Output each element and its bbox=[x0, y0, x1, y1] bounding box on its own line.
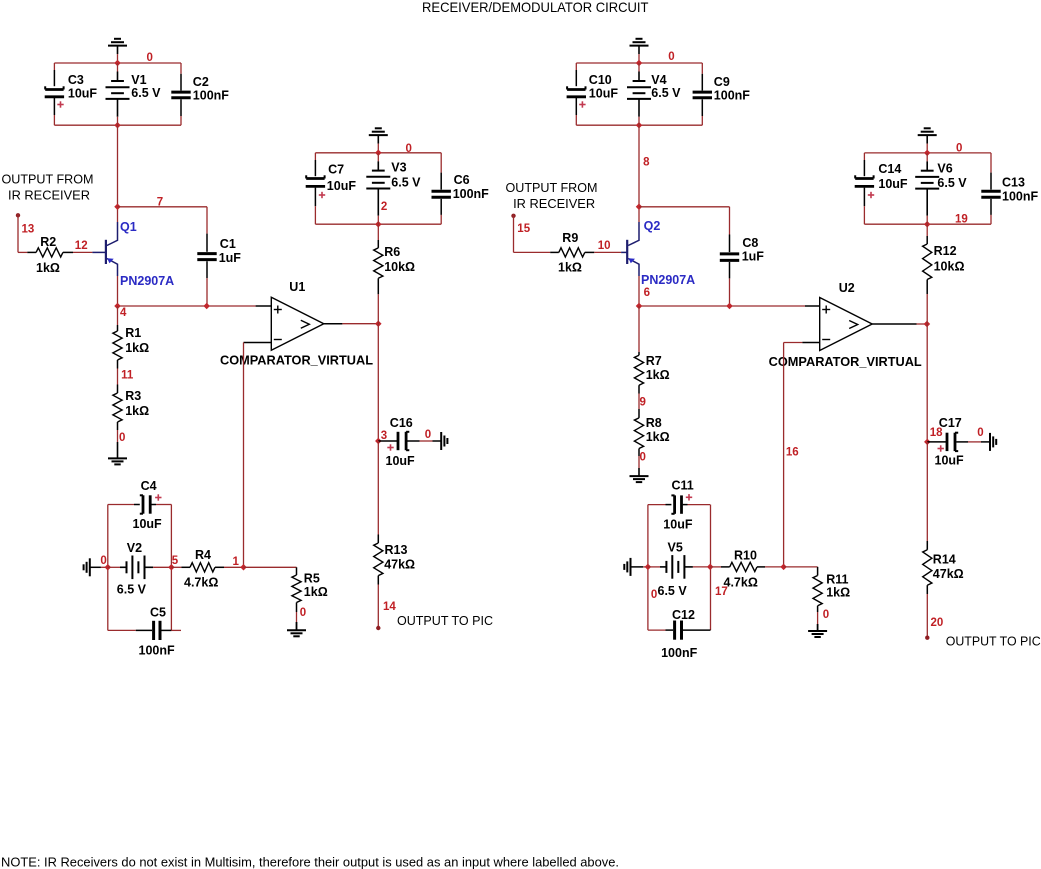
wire node 11 bbox=[117, 369, 119, 385]
junction top of V4 bbox=[636, 60, 643, 67]
battery V4 bbox=[638, 63, 640, 72]
svg-text:0: 0 bbox=[300, 607, 306, 619]
svg-text:12: 12 bbox=[75, 240, 88, 252]
svg-text:13: 13 bbox=[22, 223, 35, 235]
svg-text:6: 6 bbox=[644, 287, 650, 299]
svg-text:Q2: Q2 bbox=[644, 219, 661, 233]
resistor R1 bbox=[117, 306, 119, 325]
wire V5 box left vertical bbox=[647, 505, 649, 630]
wire V3 box bottom bbox=[315, 223, 441, 225]
svg-text:R13: R13 bbox=[385, 543, 408, 557]
svg-text:V1: V1 bbox=[131, 73, 146, 87]
ground left of V5 bbox=[630, 558, 632, 576]
wire U1 minus down to node 1 bbox=[243, 343, 245, 568]
svg-text:C1: C1 bbox=[220, 237, 236, 251]
svg-text:100nF: 100nF bbox=[193, 89, 229, 103]
svg-text:C17: C17 bbox=[939, 416, 962, 430]
svg-text:2: 2 bbox=[381, 201, 387, 213]
output terminal right bbox=[925, 636, 929, 640]
junction top of V1 bbox=[114, 60, 121, 67]
svg-text:RECEIVER/DEMODULATOR CIRCUIT: RECEIVER/DEMODULATOR CIRCUIT bbox=[422, 0, 649, 15]
ground (top of V6 supply) bbox=[924, 127, 931, 129]
wire node 1 to R5 bbox=[244, 566, 297, 568]
svg-text:4.7kΩ: 4.7kΩ bbox=[184, 576, 218, 590]
wire node 0 below R8 bbox=[638, 456, 640, 468]
svg-text:R8: R8 bbox=[646, 416, 662, 430]
svg-text:0: 0 bbox=[668, 51, 674, 63]
ground below R5 bbox=[296, 622, 298, 630]
svg-text:7: 7 bbox=[157, 196, 163, 208]
svg-text:R9: R9 bbox=[562, 231, 578, 245]
svg-text:20: 20 bbox=[931, 617, 944, 629]
capacitor C13 bbox=[990, 153, 992, 173]
resistor R11 bbox=[817, 567, 819, 576]
svg-text:R11: R11 bbox=[826, 572, 848, 586]
svg-text:V3: V3 bbox=[391, 161, 406, 175]
svg-text:0: 0 bbox=[425, 429, 431, 441]
svg-text:IR RECEIVER: IR RECEIVER bbox=[8, 187, 90, 202]
svg-text:10kΩ: 10kΩ bbox=[934, 260, 965, 274]
wire stub right of C5 bbox=[171, 629, 181, 631]
ground right of C17 bbox=[989, 433, 991, 451]
wire V1 box top bbox=[54, 62, 181, 64]
svg-text:V2: V2 bbox=[127, 541, 142, 555]
wire U2 minus down to node 16 bbox=[783, 343, 785, 567]
svg-text:OUTPUT FROM: OUTPUT FROM bbox=[506, 180, 598, 195]
svg-text:6.5 V: 6.5 V bbox=[117, 582, 147, 596]
junction V5 left bbox=[645, 564, 652, 571]
svg-text:R4: R4 bbox=[195, 548, 211, 562]
svg-text:1kΩ: 1kΩ bbox=[304, 585, 328, 599]
wire V2 box right vertical bbox=[170, 505, 172, 631]
junction V2 right node 5 bbox=[168, 564, 175, 571]
wire U2 minus input bbox=[784, 342, 803, 344]
op-amp U1 bbox=[271, 297, 324, 350]
svg-text:14: 14 bbox=[383, 601, 396, 613]
svg-text:3: 3 bbox=[381, 430, 387, 442]
svg-text:1uF: 1uF bbox=[219, 251, 242, 265]
svg-text:OUTPUT TO PIC: OUTPUT TO PIC bbox=[397, 613, 493, 628]
capacitor C6 bbox=[440, 153, 442, 173]
svg-text:C5: C5 bbox=[150, 606, 166, 620]
svg-text:10uF: 10uF bbox=[935, 453, 965, 467]
svg-text:6.5 V: 6.5 V bbox=[131, 86, 161, 100]
ground left of V2 bbox=[89, 558, 91, 576]
capacitor C3 bbox=[53, 63, 55, 70]
svg-text:R14: R14 bbox=[933, 553, 956, 567]
svg-text:V4: V4 bbox=[651, 73, 666, 87]
wire node 6 horizontal bbox=[639, 305, 805, 307]
wire ground to V5 junction bbox=[631, 566, 644, 568]
svg-text:16: 16 bbox=[786, 446, 799, 458]
plus mark C3 bbox=[57, 104, 63, 106]
svg-text:R6: R6 bbox=[384, 245, 400, 259]
svg-text:10uF: 10uF bbox=[663, 518, 693, 532]
svg-text:47kΩ: 47kΩ bbox=[933, 567, 964, 581]
svg-text:IR RECEIVER: IR RECEIVER bbox=[513, 196, 595, 211]
junction Q2 collector bbox=[636, 204, 643, 211]
svg-text:0: 0 bbox=[119, 432, 125, 444]
svg-text:100nF: 100nF bbox=[661, 646, 697, 660]
svg-text:6.5 V: 6.5 V bbox=[658, 584, 688, 598]
transistor Q1 bbox=[92, 251, 106, 253]
svg-text:10: 10 bbox=[598, 240, 611, 252]
junction node 18 at C17 bbox=[924, 439, 931, 446]
svg-text:U2: U2 bbox=[839, 281, 855, 295]
wire node 7 horizontal bbox=[118, 206, 208, 208]
junction node 4 at emitter bbox=[114, 303, 121, 310]
junction node 16 bbox=[780, 564, 787, 571]
wire U1 minus input bbox=[244, 342, 272, 344]
svg-text:C14: C14 bbox=[878, 162, 901, 176]
junction bottom of V3 bbox=[375, 221, 382, 228]
svg-text:R7: R7 bbox=[646, 354, 662, 368]
svg-text:R1: R1 bbox=[125, 326, 141, 340]
wire node 14 to output bbox=[377, 585, 379, 629]
wire V1 to Q1 collector bbox=[117, 125, 119, 207]
plus mark C16 bbox=[387, 447, 393, 449]
svg-text:6.5 V: 6.5 V bbox=[391, 176, 421, 190]
svg-text:C4: C4 bbox=[141, 479, 157, 493]
junction bottom of V1 bbox=[114, 122, 121, 129]
svg-text:10uF: 10uF bbox=[589, 87, 619, 101]
capacitor C14 bbox=[863, 153, 865, 160]
resistor R3 bbox=[117, 385, 119, 394]
capacitor C16 bbox=[378, 440, 397, 442]
capacitor C5 bbox=[108, 629, 136, 631]
transistor Q2 bbox=[621, 251, 627, 253]
svg-text:10uF: 10uF bbox=[327, 179, 357, 193]
wire node 9 bbox=[638, 394, 640, 410]
battery V5 bbox=[648, 566, 660, 568]
wire U1 output bbox=[324, 323, 343, 325]
junction top of V3 bbox=[375, 150, 382, 157]
wire node 8 V4 to Q2 bbox=[638, 125, 640, 207]
junction node 4 at C1 bbox=[203, 303, 210, 310]
resistor R7 bbox=[638, 306, 640, 352]
svg-text:1kΩ: 1kΩ bbox=[125, 341, 149, 355]
plus mark C10 bbox=[579, 104, 585, 106]
svg-text:C9: C9 bbox=[714, 75, 730, 89]
wire V4 box bottom bbox=[576, 124, 702, 126]
battery V6 bbox=[926, 153, 928, 162]
svg-text:0: 0 bbox=[977, 427, 983, 439]
svg-text:V6: V6 bbox=[937, 162, 952, 176]
svg-text:C10: C10 bbox=[589, 73, 612, 87]
svg-text:10uF: 10uF bbox=[68, 87, 98, 101]
ground (top of V4 supply) bbox=[636, 38, 643, 40]
junction Q1 collector node 7 bbox=[114, 204, 121, 211]
svg-text:6.5 V: 6.5 V bbox=[651, 86, 681, 100]
resistor R8 bbox=[638, 409, 640, 418]
svg-text:11: 11 bbox=[121, 370, 134, 382]
wire V6 box top bbox=[864, 152, 991, 154]
resistor R5 bbox=[296, 567, 298, 575]
wire V3 box top bbox=[315, 152, 441, 154]
ground (top of V1 supply) bbox=[114, 38, 121, 40]
input terminal node 15 bbox=[511, 214, 515, 218]
plus mark C14 bbox=[868, 194, 874, 196]
svg-text:C16: C16 bbox=[390, 416, 413, 430]
svg-text:47kΩ: 47kΩ bbox=[384, 557, 415, 571]
wire V2 box left vertical bbox=[107, 505, 109, 631]
svg-text:C13: C13 bbox=[1002, 175, 1025, 189]
svg-text:COMPARATOR_VIRTUAL: COMPARATOR_VIRTUAL bbox=[769, 355, 922, 369]
junction node 6 at C8 bbox=[726, 303, 733, 310]
wire V2 box top left segment bbox=[108, 504, 134, 506]
svg-text:4.7kΩ: 4.7kΩ bbox=[724, 576, 758, 590]
svg-text:R3: R3 bbox=[125, 389, 141, 403]
ground below R11 bbox=[817, 624, 819, 631]
svg-text:1uF: 1uF bbox=[742, 249, 765, 263]
output terminal left bbox=[376, 626, 380, 630]
svg-text:1kΩ: 1kΩ bbox=[125, 404, 149, 418]
svg-text:C7: C7 bbox=[328, 163, 344, 177]
svg-text:10uF: 10uF bbox=[386, 454, 416, 468]
svg-text:C11: C11 bbox=[672, 479, 694, 493]
wire V1 box bottom bbox=[54, 124, 181, 126]
capacitor C12 bbox=[648, 629, 666, 631]
junction U2 output bbox=[924, 321, 931, 328]
capacitor C10 bbox=[575, 63, 577, 70]
junction node 3 at C16 bbox=[375, 438, 382, 445]
svg-text:15: 15 bbox=[517, 223, 530, 235]
ground below R8 bbox=[638, 468, 640, 476]
svg-text:OUTPUT FROM: OUTPUT FROM bbox=[2, 171, 94, 186]
svg-text:PN2907A: PN2907A bbox=[120, 274, 174, 288]
capacitor C2 bbox=[180, 63, 182, 74]
capacitor C4 bbox=[142, 495, 145, 513]
resistor R6 bbox=[377, 224, 379, 240]
svg-text:10uF: 10uF bbox=[133, 517, 163, 531]
svg-text:R2: R2 bbox=[40, 235, 56, 249]
svg-text:R12: R12 bbox=[934, 244, 957, 258]
wire Q2 collector red bbox=[638, 207, 640, 222]
wire R12 to output node bbox=[926, 294, 928, 442]
resistor R12 bbox=[926, 224, 928, 236]
wire node 12 bbox=[73, 251, 92, 253]
capacitor C7 bbox=[314, 153, 316, 160]
wire V5 box top left segment bbox=[648, 504, 666, 506]
svg-text:19: 19 bbox=[955, 214, 968, 226]
wire input to R2 bbox=[17, 214, 19, 252]
svg-text:U1: U1 bbox=[289, 280, 305, 294]
junction U1 output bbox=[375, 320, 382, 327]
junction node 6 at emitter bbox=[636, 303, 643, 310]
wire V6 box bottom bbox=[864, 223, 991, 225]
ground right of C16 bbox=[440, 432, 442, 450]
wire node 18 down to R14 bbox=[926, 442, 928, 541]
wire node 0 below R3 bbox=[117, 430, 119, 442]
junction V5 right node 17 bbox=[707, 564, 714, 571]
svg-text:100nF: 100nF bbox=[453, 187, 489, 201]
svg-text:C2: C2 bbox=[193, 75, 209, 89]
svg-text:1kΩ: 1kΩ bbox=[646, 368, 670, 382]
wire input to R9 bbox=[513, 215, 515, 253]
wire Q1 emitter red bbox=[117, 276, 119, 306]
ground (top of V3 supply) bbox=[375, 127, 382, 129]
capacitor C17 bbox=[927, 441, 946, 443]
junction bottom of V6 bbox=[924, 221, 931, 228]
svg-text:100nF: 100nF bbox=[139, 644, 175, 658]
svg-text:1kΩ: 1kΩ bbox=[558, 261, 582, 275]
capacitor C8 bbox=[729, 207, 731, 235]
svg-text:V5: V5 bbox=[668, 541, 683, 555]
input terminal node 13 bbox=[16, 213, 20, 217]
capacitor C1 bbox=[206, 207, 208, 234]
svg-text:100nF: 100nF bbox=[714, 89, 750, 103]
svg-text:0: 0 bbox=[147, 52, 153, 64]
wire V4 box top bbox=[576, 62, 702, 64]
svg-text:10uF: 10uF bbox=[878, 177, 908, 191]
plus mark C11 bbox=[686, 496, 692, 498]
wire U2 output bbox=[872, 323, 916, 325]
battery V2 bbox=[108, 566, 120, 568]
svg-text:1kΩ: 1kΩ bbox=[36, 261, 60, 275]
junction V2 left bbox=[105, 564, 112, 571]
op-amp U2 bbox=[820, 298, 873, 351]
svg-text:0: 0 bbox=[640, 451, 646, 463]
capacitor C9 bbox=[701, 63, 703, 74]
svg-text:1kΩ: 1kΩ bbox=[646, 430, 670, 444]
svg-text:9: 9 bbox=[640, 396, 646, 408]
svg-text:6.5 V: 6.5 V bbox=[937, 176, 967, 190]
plus mark C4 bbox=[155, 497, 161, 499]
svg-text:1: 1 bbox=[233, 556, 240, 568]
svg-text:4: 4 bbox=[120, 307, 127, 319]
wire node 20 to output bbox=[926, 594, 928, 638]
junction node 1 bbox=[240, 564, 247, 571]
wire Q2 collector to C8 bbox=[639, 206, 730, 208]
wire V5 box right vertical bbox=[710, 505, 712, 630]
battery V1 bbox=[117, 63, 119, 72]
wire Q2 emitter red bbox=[638, 276, 640, 306]
svg-text:0: 0 bbox=[100, 555, 106, 567]
plus mark C17 bbox=[938, 448, 944, 450]
svg-text:C12: C12 bbox=[672, 608, 695, 622]
svg-text:1kΩ: 1kΩ bbox=[826, 586, 850, 600]
svg-text:C8: C8 bbox=[742, 236, 758, 250]
svg-text:OUTPUT TO PIC: OUTPUT TO PIC bbox=[946, 633, 1041, 648]
svg-text:C6: C6 bbox=[454, 173, 470, 187]
wire Q1 collector red bbox=[117, 207, 119, 222]
svg-text:0: 0 bbox=[823, 609, 829, 621]
wire node 4 horizontal bbox=[118, 305, 256, 307]
wire R6 to output node bbox=[377, 294, 379, 441]
svg-text:10kΩ: 10kΩ bbox=[384, 260, 415, 274]
svg-text:PN2907A: PN2907A bbox=[641, 273, 695, 287]
svg-text:Q1: Q1 bbox=[120, 220, 137, 234]
svg-text:R5: R5 bbox=[304, 572, 320, 586]
resistor R13 bbox=[377, 535, 379, 544]
capacitor C11 bbox=[673, 495, 676, 513]
plus mark C7 bbox=[319, 194, 325, 196]
svg-text:0: 0 bbox=[651, 589, 657, 601]
resistor R2 bbox=[27, 251, 36, 253]
svg-text:8: 8 bbox=[643, 157, 650, 169]
ground below R3 bbox=[117, 442, 119, 458]
resistor R9 bbox=[550, 251, 559, 253]
svg-text:C3: C3 bbox=[68, 73, 84, 87]
wire node 10 bbox=[594, 251, 621, 253]
junction bottom of V4 bbox=[636, 122, 643, 129]
wire node 3 down to R13 bbox=[377, 441, 379, 535]
wire ground to node 0 junction bbox=[90, 566, 101, 568]
junction top of V6 bbox=[924, 150, 931, 157]
resistor R4 bbox=[171, 566, 181, 568]
svg-text:NOTE: IR Receivers do not exis: NOTE: IR Receivers do not exist in Multi… bbox=[1, 855, 619, 869]
svg-text:100nF: 100nF bbox=[1002, 190, 1038, 204]
resistor R10 bbox=[710, 566, 721, 568]
svg-text:5: 5 bbox=[172, 555, 179, 567]
wire node 16 to R11 bbox=[784, 566, 818, 568]
resistor R14 bbox=[926, 541, 928, 550]
battery V3 bbox=[377, 153, 379, 162]
svg-text:R10: R10 bbox=[734, 549, 757, 563]
